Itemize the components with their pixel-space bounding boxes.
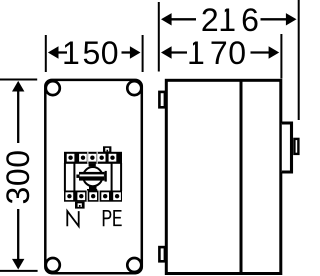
dim 216 line right stub (261, 18, 287, 20)
dim 216 arrow right (286, 13, 297, 25)
dim 216 line left stub (171, 18, 196, 20)
svg-text:5: 5 (83, 35, 101, 71)
svg-text:0: 0 (228, 35, 246, 71)
mounting hole bottom-right (127, 258, 141, 272)
svg-text:7: 7 (210, 35, 228, 71)
dim 300 line upper (17, 91, 19, 144)
dim 216 extension line right (298, 0, 300, 120)
dim 150 arrow right (130, 46, 141, 58)
side view handle housing protrusion (282, 123, 292, 172)
switch bottom terminal strip (64, 191, 122, 202)
dim 170 arrow right (269, 46, 280, 58)
svg-text:2: 2 (201, 2, 219, 38)
dim 300 arrow down (12, 259, 24, 270)
enclosure side view body (166, 80, 280, 273)
dim 170 extension line right (280, 34, 282, 79)
switch handle lever (76, 171, 106, 182)
label PE (104, 211, 111, 226)
dim 150 arrow left (48, 46, 59, 58)
dim 170 line left stub (171, 51, 187, 53)
svg-text:1: 1 (62, 35, 80, 71)
dim 150 extension line right (142, 35, 144, 72)
switch side walls (vertical lines) (65, 163, 121, 191)
svg-text:300: 300 (0, 149, 36, 204)
rotary switch bottom detent (89, 186, 97, 189)
rotary switch top detent (89, 164, 96, 167)
dim 216 extension line left (shared with 170) (158, 2, 160, 72)
rotary switch circle (83, 167, 102, 186)
dim 170 arrow left (161, 46, 172, 58)
dim 170 line right stub (251, 51, 270, 53)
side view bottom-left clip (159, 247, 165, 261)
svg-text:6: 6 (241, 2, 259, 38)
label N (67, 211, 78, 226)
dim 300 line lower (17, 209, 19, 260)
dim 216 arrow left (161, 13, 172, 25)
dim 150 line left stub (58, 51, 68, 53)
switch bottom neutral tab (75, 202, 85, 209)
mounting hole bottom-left (46, 258, 60, 272)
dim 300 bottom tick (0, 270, 38, 272)
dim 150 line right stub (122, 51, 131, 53)
side view handle tip bump (294, 139, 298, 154)
enclosure front view body (45, 80, 142, 273)
side view lid seam line (240, 80, 243, 273)
switch top padlock tab (103, 146, 111, 152)
svg-text:0: 0 (101, 35, 119, 71)
dim 150 extension line left (45, 35, 47, 72)
mounting hole top-left (46, 81, 60, 95)
side view top-left clip (159, 92, 165, 107)
dim 300 top tick (0, 79, 37, 81)
rotary switch pedestal (87, 189, 97, 191)
switch top terminal strip (64, 152, 122, 164)
mounting hole top-right (127, 81, 141, 95)
dim 300 arrow up (12, 81, 24, 92)
